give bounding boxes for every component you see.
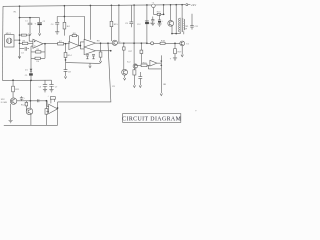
svg-text:C9: C9 (112, 86, 116, 88)
svg-text:+9V: +9V (191, 3, 196, 7)
svg-text:R4: R4 (67, 26, 71, 28)
svg-text:T1: T1 (151, 2, 154, 4)
svg-text:C11: C11 (195, 26, 199, 28)
svg-text:R19: R19 (178, 52, 183, 54)
svg-text:CIRCUIT DIAGRAM: CIRCUIT DIAGRAM (122, 116, 181, 122)
svg-text:C7: C7 (55, 86, 58, 88)
svg-text:+: + (48, 95, 50, 97)
svg-text:R14: R14 (68, 55, 73, 57)
svg-text:+: + (24, 97, 26, 99)
svg-text:R12: R12 (21, 104, 26, 106)
svg-text:R11: R11 (15, 89, 20, 91)
svg-text:+: + (195, 110, 197, 113)
svg-text:+: + (35, 22, 37, 25)
svg-text:D1: D1 (25, 70, 28, 72)
svg-text:C2: C2 (43, 21, 46, 23)
svg-text:C4: C4 (51, 24, 54, 26)
svg-text:8 OHM: 8 OHM (1, 102, 7, 104)
svg-text:R9: R9 (97, 41, 101, 43)
svg-text:+: + (162, 20, 164, 22)
svg-text:R1: R1 (14, 12, 18, 14)
svg-text:T4: T4 (186, 43, 189, 45)
svg-text:C8: C8 (68, 72, 72, 74)
svg-text:SP: SP (185, 29, 188, 31)
svg-text:C6: C6 (39, 86, 42, 88)
svg-text:C5: C5 (25, 75, 28, 77)
svg-text:8R: 8R (163, 84, 166, 86)
svg-text:R15: R15 (114, 24, 119, 26)
svg-text:R6: R6 (36, 61, 39, 63)
svg-text:+: + (170, 57, 172, 60)
svg-text:C3: C3 (21, 53, 24, 55)
svg-text:SPK: SPK (1, 99, 6, 101)
svg-text:IC2: IC2 (127, 61, 131, 63)
svg-text:C9: C9 (125, 23, 129, 25)
svg-text:R17: R17 (129, 51, 134, 53)
svg-text:MIC1: MIC1 (6, 33, 12, 35)
svg-text:C1: C1 (25, 21, 28, 23)
svg-text:C12: C12 (137, 24, 142, 26)
